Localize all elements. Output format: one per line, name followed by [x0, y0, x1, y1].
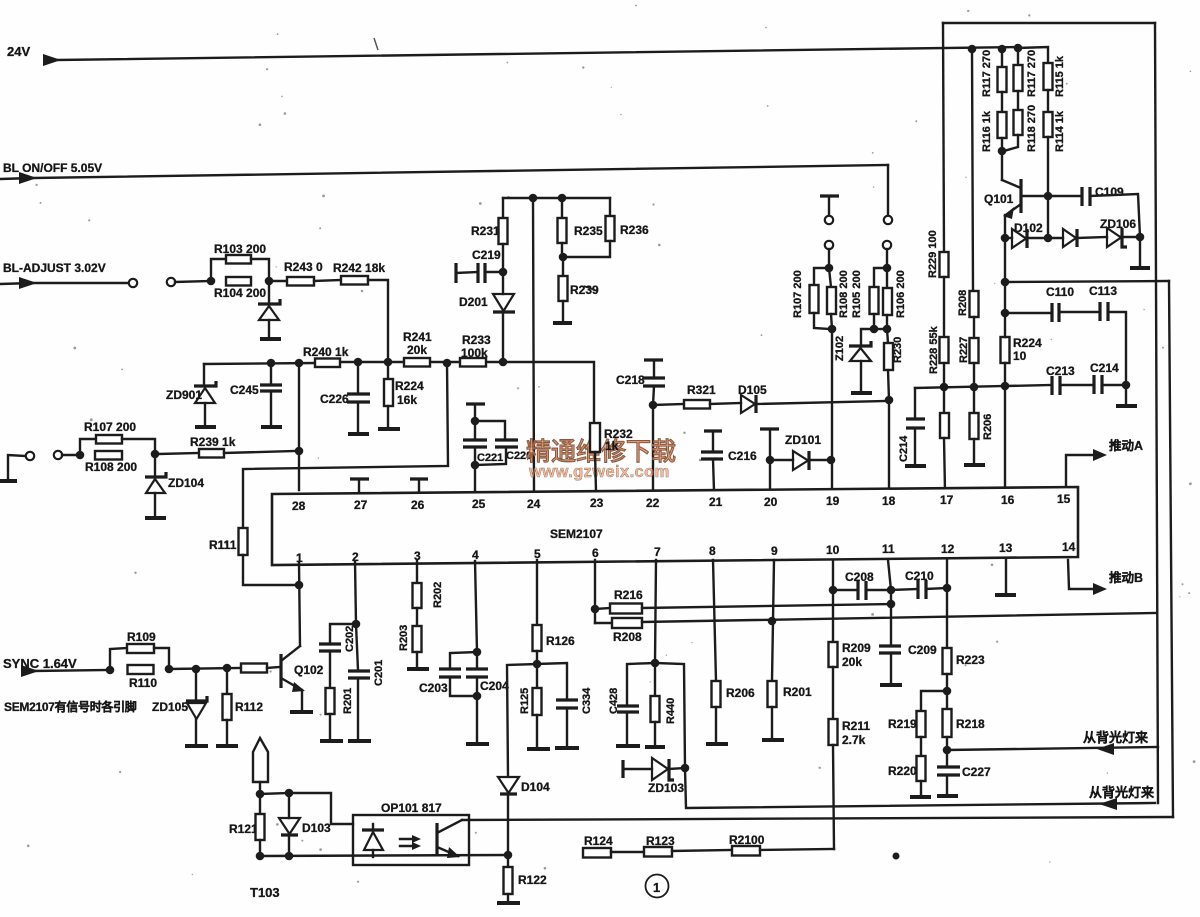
transistor OP101 output: [435, 823, 438, 855]
ground: [348, 739, 371, 743]
svg-text:10: 10: [1013, 349, 1027, 363]
junction dot: [256, 852, 265, 861]
junction dot: [473, 692, 482, 701]
svg-text:D104: D104: [521, 780, 550, 794]
wire mid row y363: [204, 363, 315, 364]
junction dot: [651, 659, 660, 668]
junction dot: [943, 746, 952, 755]
stub above pin26: [410, 477, 428, 480]
svg-text:C213: C213: [1046, 364, 1075, 378]
resistor R202: [413, 583, 422, 608]
svg-text:17: 17: [940, 493, 954, 507]
ground: [527, 747, 550, 751]
wire 24V corner to R115: [1018, 47, 1048, 63]
junction dot: [998, 45, 1007, 54]
junction dot: [295, 581, 304, 590]
capacitor C213: [1005, 385, 1052, 386]
wire pin8 column: [713, 560, 716, 681]
capacitor C218 stub: [644, 358, 663, 361]
resistor R201b: [768, 681, 777, 707]
resistor R103: [211, 259, 226, 281]
svg-text:C334: C334: [581, 687, 593, 714]
svg-text:R117 270: R117 270: [1026, 50, 1038, 97]
node connector circle: [883, 241, 891, 249]
resistor R117b: [1017, 48, 1019, 65]
diode D102b: [1063, 229, 1076, 247]
junction dot: [943, 687, 952, 696]
resistor R233: [460, 358, 486, 367]
capacitor C202: [330, 624, 356, 643]
resistor R123: [644, 847, 672, 857]
svg-text:R321: R321: [687, 383, 716, 397]
svg-text:R228 55k: R228 55k: [928, 325, 940, 374]
junction dot: [192, 665, 201, 674]
wire 24V drop to R208: [972, 49, 973, 291]
resistor Q102 base: [241, 664, 267, 673]
svg-text:R201: R201: [783, 685, 812, 699]
zener ZD103: [621, 760, 624, 778]
diode D104: [498, 777, 519, 793]
resistor R114: [1044, 112, 1053, 137]
svg-text:R114 1k: R114 1k: [1054, 110, 1066, 152]
resistor R219: [921, 691, 947, 711]
node connector circle: [26, 452, 34, 460]
wire R231/R235/R236 top rail: [503, 197, 610, 199]
junction dot: [256, 790, 265, 799]
resistor R206: [973, 387, 975, 413]
svg-text:C201: C201: [373, 660, 385, 686]
ground: [260, 337, 281, 341]
resistor R235: [561, 198, 563, 218]
wire outer right vertical: [1169, 281, 1173, 817]
svg-text:BL-ADJUST 3.02V: BL-ADJUST 3.02V: [3, 261, 106, 275]
junction dot: [883, 325, 892, 334]
wire pin12 column: [946, 560, 948, 648]
junction dot: [1001, 278, 1010, 287]
svg-text:R105 200: R105 200: [851, 270, 863, 318]
svg-text:16k: 16k: [397, 393, 417, 407]
wire pin10 column: [832, 560, 834, 642]
junction dot: [473, 648, 482, 657]
junction dot: [940, 383, 949, 392]
svg-text:T103: T103: [250, 885, 280, 900]
diode OP101 LED: [372, 824, 374, 830]
wire R111 top run: [243, 363, 448, 528]
junction dot: [285, 852, 294, 861]
junction dot: [471, 461, 480, 470]
svg-text:SYNC 1.64V: SYNC 1.64V: [3, 656, 77, 671]
ground: [320, 739, 343, 743]
ground: [145, 516, 166, 520]
svg-text:1: 1: [653, 880, 660, 895]
wire: [1059, 311, 1100, 313]
wire pin17 column: [944, 438, 945, 491]
ground: [555, 746, 579, 750]
resistor R218: [946, 691, 948, 709]
wire: [476, 696, 478, 742]
svg-text:BL ON/OFF 5.05V: BL ON/OFF 5.05V: [3, 161, 102, 175]
arrow backlight B: [1099, 798, 1117, 810]
ground: [1130, 266, 1150, 270]
svg-text:C204: C204: [480, 679, 509, 693]
svg-text:R218: R218: [956, 717, 985, 731]
svg-text:R107 200: R107 200: [792, 270, 804, 318]
svg-text:22: 22: [646, 496, 660, 510]
svg-text:C113: C113: [1089, 284, 1117, 298]
resistor R118: [1014, 110, 1023, 135]
resistor R231: [502, 198, 504, 218]
wire backlight return B lower: [685, 768, 1155, 808]
svg-text:R201: R201: [342, 688, 354, 714]
resistor R122: [507, 855, 509, 867]
svg-text:R240 1k: R240 1k: [303, 345, 349, 359]
junction dot: [504, 851, 513, 860]
junction dot: [559, 253, 568, 262]
junction dot: [76, 451, 85, 460]
ground: [466, 742, 489, 746]
svg-text:R223: R223: [956, 653, 985, 667]
junction dot: [1001, 234, 1010, 243]
svg-text:8: 8: [709, 544, 716, 558]
wire: [886, 249, 888, 268]
svg-text:R241: R241: [403, 330, 432, 344]
svg-text:9: 9: [771, 544, 778, 558]
wire pin24 column: [533, 198, 534, 491]
resistor R117: [1001, 49, 1003, 67]
wire 24V rail: [57, 47, 1018, 60]
transistor Q101: [1001, 151, 1003, 180]
resistor R211: [829, 719, 838, 745]
junction dot: [828, 325, 837, 334]
junction dot: [1014, 44, 1023, 53]
svg-text:Z102: Z102: [834, 336, 846, 361]
junction dot: [499, 358, 508, 367]
junction dot: [443, 359, 452, 368]
wire: [62, 454, 80, 456]
resistor R206b: [712, 681, 721, 707]
resistor R104: [226, 277, 251, 286]
resistor R223: [943, 648, 952, 674]
capacitor C219: [454, 263, 457, 283]
stub terminal pin20: [760, 427, 779, 430]
resistor R126: [533, 625, 542, 651]
svg-text:R118 270: R118 270: [1026, 105, 1038, 152]
wire pin9 column: [772, 560, 774, 681]
wire R2100 to pin10 column: [760, 849, 834, 850]
diode D201: [502, 272, 504, 294]
zener ZD104: [154, 454, 156, 476]
ground: [348, 432, 369, 436]
node connector circle: [825, 241, 833, 249]
svg-text:19: 19: [826, 494, 840, 508]
svg-text:10: 10: [826, 543, 840, 557]
svg-text:www.gzweix.com: www.gzweix.com: [528, 463, 670, 481]
svg-text:C110: C110: [1046, 285, 1074, 299]
svg-text:R229 100: R229 100: [927, 230, 939, 278]
wire y387 row: [915, 386, 1005, 388]
wire pin22 column: [652, 405, 654, 491]
wire pin3 column: [416, 561, 418, 583]
resistor R220: [917, 756, 926, 781]
wire pin16 top rail to outer vertical: [1005, 281, 1169, 282]
capacitor C214 left: [914, 388, 916, 418]
junction dot: [207, 277, 216, 286]
svg-text:ZD106: ZD106: [1100, 217, 1136, 231]
wire R229 column top: [943, 23, 944, 252]
wire BL rail drop to connector: [887, 165, 889, 216]
resistor R115: [1044, 63, 1053, 90]
junction dot: [943, 584, 952, 593]
junction dot: [591, 605, 600, 614]
resistor R116: [998, 112, 1007, 138]
ground: [195, 425, 216, 429]
wire: [874, 328, 887, 330]
resistor R209: [829, 642, 838, 667]
svg-text:11: 11: [882, 542, 895, 556]
wire pin11 stub: [890, 590, 892, 604]
resistor R124: [583, 848, 611, 858]
zener ZD901: [203, 364, 205, 385]
wire: [710, 403, 741, 404]
wire D105 to pin18 column: [756, 401, 887, 404]
svg-text:ZD101: ZD101: [785, 433, 821, 447]
resistor R228: [940, 337, 949, 363]
capacitor C214b: [1092, 375, 1095, 394]
wire pin11 column: [888, 560, 891, 590]
wire pin1 column to Q102 collector: [299, 563, 300, 646]
capacitor C227: [946, 750, 948, 766]
wire pin4 column: [475, 561, 477, 652]
svg-text:R206: R206: [982, 414, 994, 440]
junction dot: [883, 264, 892, 273]
svg-text:R125: R125: [519, 688, 531, 714]
wire pin7 to ZD103: [655, 663, 685, 768]
junction dot: [223, 664, 232, 673]
wire: [259, 782, 261, 794]
junction dot: [887, 600, 896, 609]
svg-text:C214: C214: [1090, 361, 1119, 375]
ground: [937, 794, 958, 798]
svg-text:R107 200: R107 200: [84, 420, 136, 434]
ground: [851, 391, 872, 395]
junction dot: [970, 383, 979, 392]
svg-text:1k: 1k: [605, 439, 619, 453]
resistor R201a: [326, 688, 335, 714]
svg-text:R117 270: R117 270: [981, 50, 993, 97]
junction dot: [887, 586, 896, 595]
junction dot: [471, 417, 480, 426]
junction dot: [766, 456, 775, 465]
wire R208 row to right vertical: [642, 613, 1156, 622]
junction dot: [1044, 192, 1053, 201]
svg-text:C109: C109: [1095, 185, 1124, 199]
svg-text:R108 200: R108 200: [838, 270, 850, 318]
resistor R105: [874, 268, 887, 287]
svg-text:R122: R122: [518, 873, 547, 887]
svg-text:20: 20: [764, 495, 778, 509]
resistor R107: [80, 439, 96, 455]
svg-text:C221: C221: [477, 452, 503, 464]
wire to pin28 column: [224, 451, 295, 453]
svg-text:R216: R216: [614, 588, 643, 602]
wire SYNC lead: [33, 670, 110, 671]
diode D103: [288, 793, 290, 818]
svg-text:R203: R203: [398, 625, 410, 651]
svg-text:C226: C226: [320, 392, 349, 406]
svg-text:D103: D103: [302, 821, 331, 835]
junction dot: [295, 359, 304, 368]
svg-text:20k: 20k: [407, 343, 427, 357]
wire opto collector long rail: [462, 817, 1173, 820]
wire to R103 pair: [175, 281, 211, 282]
resistor R227: [970, 338, 979, 363]
resistor R224 16k: [387, 362, 389, 379]
svg-text:ZD105: ZD105: [152, 700, 188, 714]
wire opto bottom rail: [260, 855, 508, 856]
svg-text:推动B: 推动B: [1109, 570, 1143, 585]
node 推动B output: [1068, 560, 1094, 589]
resistor R203: [413, 626, 422, 652]
svg-text:R126: R126: [546, 634, 575, 648]
zener ZD101: [770, 459, 793, 461]
svg-text:28: 28: [292, 499, 306, 513]
svg-text:R109: R109: [127, 630, 156, 644]
svg-text:14: 14: [1062, 540, 1076, 554]
svg-text:ZD901: ZD901: [166, 388, 202, 402]
svg-text:R243 0: R243 0: [284, 260, 323, 274]
svg-text:推动A: 推动A: [1109, 438, 1143, 453]
wire: [169, 668, 241, 669]
node connector circle: [54, 451, 62, 459]
svg-text:C202: C202: [344, 626, 356, 652]
svg-text:C227: C227: [962, 765, 991, 779]
ground: [645, 745, 665, 749]
junction dot: [499, 268, 508, 277]
wire R216 row: [642, 604, 891, 608]
zener ZD105: [195, 669, 197, 700]
capacitor C216 stub: [704, 429, 722, 432]
ground: [880, 683, 902, 687]
capacitor C245: [270, 363, 272, 384]
svg-text:Q101: Q101: [984, 192, 1014, 206]
svg-text:SEM2107有信号时各引脚: SEM2107有信号时各引脚: [4, 699, 137, 714]
ground: [616, 744, 640, 748]
junction dot: [1044, 234, 1053, 243]
resistor R241: [404, 358, 430, 367]
wire pin18 column: [888, 400, 890, 491]
zener Z102: [861, 329, 874, 345]
svg-text:R219: R219: [888, 717, 917, 731]
svg-text:R242 18k: R242 18k: [333, 261, 385, 275]
svg-text:从背光灯来: 从背光灯来: [1083, 730, 1149, 745]
capacitor C428: [627, 663, 655, 705]
svg-text:Q102: Q102: [294, 663, 324, 677]
ground: [407, 667, 429, 671]
svg-text:R211: R211: [842, 719, 870, 733]
junction dot: [267, 359, 276, 368]
svg-text:23: 23: [590, 496, 604, 510]
arrow BL-ADJUST: [19, 277, 37, 289]
ground: [905, 464, 926, 468]
capacitor C220: [475, 421, 505, 439]
zener ZD106: [1107, 228, 1121, 247]
junction dot: [529, 194, 538, 203]
resistor R440: [654, 663, 656, 696]
ground: [553, 321, 572, 325]
arrow OP101 coupling: [400, 838, 414, 840]
junction dot: [1001, 309, 1010, 318]
wire pin28 column: [298, 363, 300, 490]
svg-text:R106 200: R106 200: [895, 270, 907, 318]
wire BL ON/OFF rail: [0, 165, 888, 179]
arrow backlight A: [1097, 743, 1114, 755]
svg-text:24: 24: [527, 497, 541, 511]
ground: [995, 593, 1016, 597]
wire feedback right vertical: [1155, 23, 1158, 803]
junction dot: [1001, 382, 1010, 391]
ground: [185, 744, 208, 748]
svg-text:13: 13: [999, 541, 1013, 555]
resistor R243: [273, 280, 287, 282]
svg-text:C219: C219: [472, 248, 501, 262]
svg-text:R224: R224: [395, 379, 424, 393]
junction dot: [829, 586, 838, 595]
svg-text:C218: C218: [616, 373, 645, 387]
junction dot: [151, 450, 160, 459]
svg-text:OP101 817: OP101 817: [381, 801, 442, 815]
zener diode below R104 junction: [268, 281, 270, 303]
svg-text:15: 15: [1057, 492, 1071, 506]
resistor R224 10: [1001, 337, 1010, 363]
node connector circle: [167, 278, 175, 286]
ground: [910, 795, 931, 799]
svg-text:R224: R224: [1013, 336, 1042, 350]
resistor R239: [562, 257, 564, 276]
ground: [762, 738, 784, 742]
svg-text:C203: C203: [419, 681, 448, 695]
resistor R230: [887, 329, 888, 343]
svg-text:R115 1k: R115 1k: [1054, 55, 1066, 97]
capacitor C201: [356, 624, 358, 670]
capacitor C221: [474, 421, 476, 439]
svg-text:R110: R110: [129, 676, 157, 690]
svg-text:R121: R121: [229, 822, 258, 836]
svg-text:R239 1k: R239 1k: [190, 435, 236, 449]
svg-text:R124: R124: [584, 834, 613, 848]
junction dot: [352, 620, 361, 629]
wire pin6 column: [594, 560, 596, 623]
wire: [672, 850, 732, 851]
resistor R121: [259, 794, 261, 814]
wire BL-ADJUST lead: [0, 283, 129, 284]
op-amp U1 SEM2107 IC body: [272, 487, 1078, 565]
resistor R108: [95, 451, 122, 460]
resistor R125: [536, 664, 538, 688]
node page number 1: [646, 875, 669, 898]
transistor T103 terminal: [253, 738, 268, 782]
svg-text:R231: R231: [471, 224, 500, 238]
svg-text:R206: R206: [726, 686, 755, 700]
ground: [216, 744, 238, 748]
wire to D104: [507, 664, 537, 776]
junction dot: [870, 325, 879, 334]
arrow BL ON/OFF: [19, 172, 37, 184]
junction dot: [295, 447, 304, 456]
capacitor C209: [890, 604, 892, 645]
arrow SYNC: [21, 665, 39, 677]
wire: [1139, 237, 1141, 266]
wire: [828, 249, 830, 268]
